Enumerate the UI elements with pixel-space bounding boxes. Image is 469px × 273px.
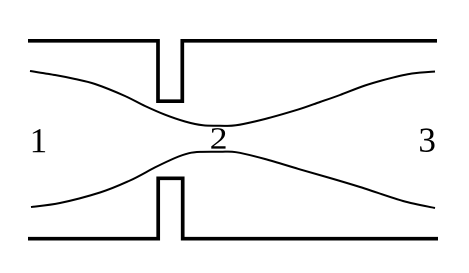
label 2 (throat station) [211, 128, 225, 149]
upper converging-diverging curve [30, 71, 435, 126]
label 3 (outlet station) [420, 128, 434, 152]
bottom wall with pressure tap notch [28, 178, 438, 238]
lower converging-diverging curve [31, 152, 435, 208]
label 1 (inlet station) [33, 129, 45, 152]
top wall with pressure tap notch [28, 41, 437, 101]
